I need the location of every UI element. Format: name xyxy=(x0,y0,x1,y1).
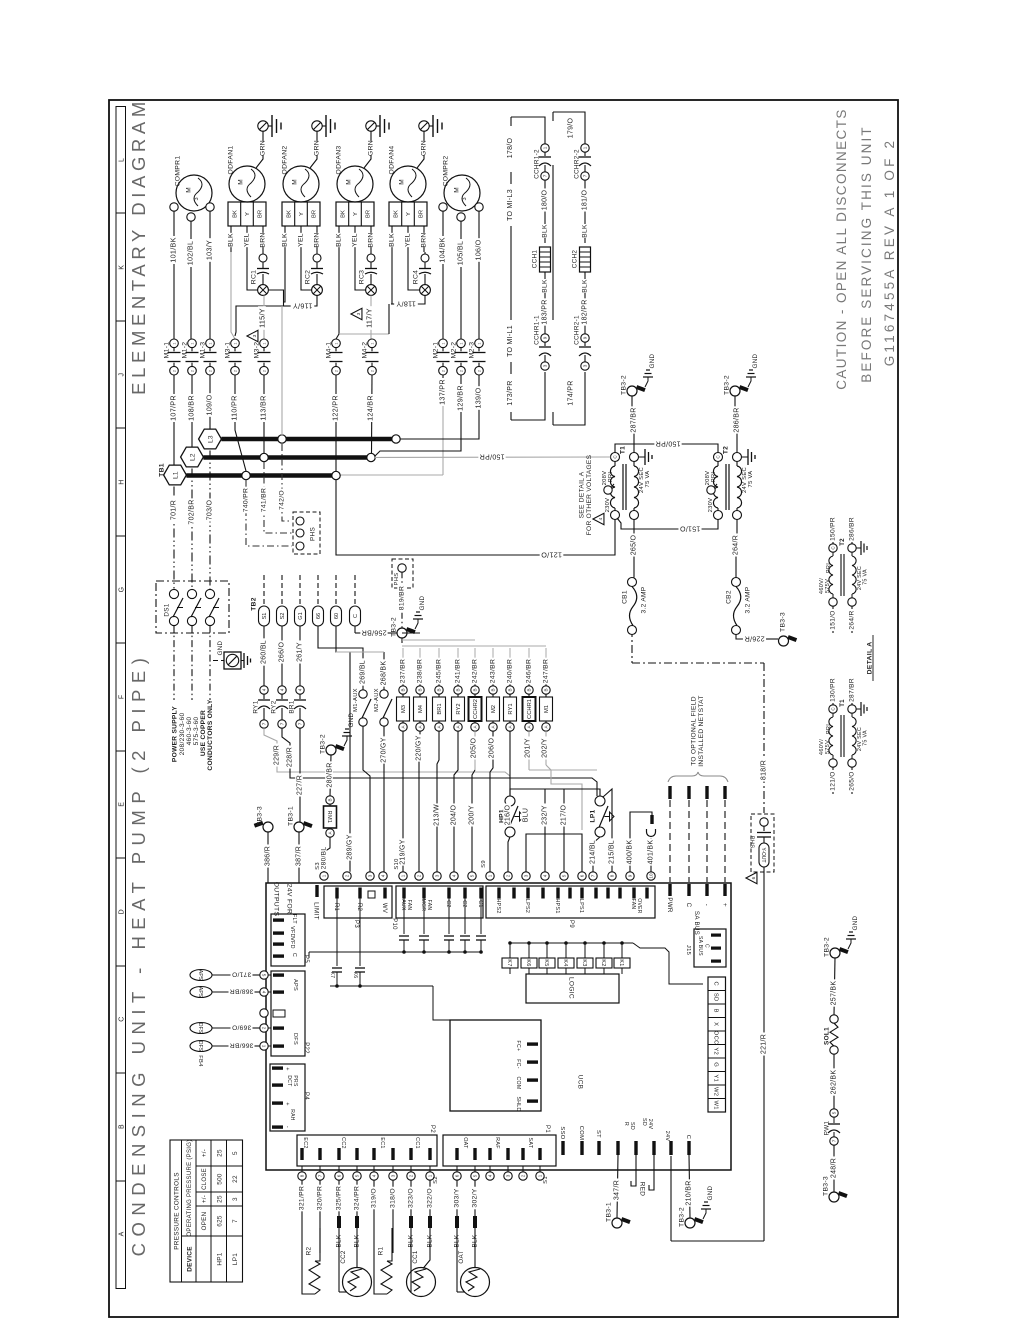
svg-text:256/BR: 256/BR xyxy=(361,628,386,635)
switch PW1 xyxy=(828,1109,840,1145)
wire BRN ODFAN4 xyxy=(423,226,425,252)
svg-text:3.2 AMP: 3.2 AMP xyxy=(744,586,751,613)
svg-text:M1-2: M1-2 xyxy=(181,342,188,359)
svg-text:LOGIC: LOGIC xyxy=(568,977,575,999)
svg-text:C: C xyxy=(685,1135,691,1140)
svg-text:B: B xyxy=(508,688,513,691)
svg-text:ODFAN2: ODFAN2 xyxy=(281,146,288,175)
svg-text:245/BR: 245/BR xyxy=(435,659,442,683)
svg-text:4: 4 xyxy=(598,517,604,520)
svg-text:701/R: 701/R xyxy=(171,500,178,520)
svg-text:261/Y: 261/Y xyxy=(297,642,304,662)
svg-text:M2-AUX: M2-AUX xyxy=(374,688,380,712)
power supply note xyxy=(171,699,214,770)
svg-text:4: 4 xyxy=(298,688,303,691)
svg-text:7: 7 xyxy=(591,874,596,877)
svg-text:RC2: RC2 xyxy=(304,270,311,285)
svg-text:115/Y: 115/Y xyxy=(258,308,267,328)
svg-text:BLK: BLK xyxy=(227,233,234,247)
svg-text:YEL: YEL xyxy=(297,233,304,247)
svg-text:102/BL: 102/BL xyxy=(186,241,195,266)
wire 262/BK xyxy=(833,1054,835,1109)
svg-text:137/PR: 137/PR xyxy=(438,379,447,405)
svg-text:1: 1 xyxy=(262,342,266,344)
capacitor RC2 xyxy=(311,252,323,295)
svg-text:1: 1 xyxy=(538,1174,543,1177)
svg-text:742/O: 742/O xyxy=(278,490,285,510)
motor ODFAN3 xyxy=(337,166,373,202)
svg-text:SHLD: SHLD xyxy=(515,1096,521,1111)
svg-text:BLK: BLK xyxy=(541,224,548,238)
svg-text:3: 3 xyxy=(524,874,529,877)
svg-text:RC3: RC3 xyxy=(358,270,365,285)
svg-text:M: M xyxy=(345,179,352,184)
wire GRN ODFAN4 xyxy=(417,132,424,169)
svg-text:320/PR: 320/PR xyxy=(316,1186,323,1210)
svg-text:PRS: PRS xyxy=(292,1075,298,1087)
wire BLK ODFAN2 to M3-1 xyxy=(235,252,285,336)
wire 400/BK spare xyxy=(630,812,652,872)
contact M2-3 xyxy=(473,339,486,375)
svg-text:DEVICE: DEVICE xyxy=(186,1246,193,1272)
wire 386/R xyxy=(267,832,269,883)
svg-text:121/O: 121/O xyxy=(829,771,836,790)
wire 321/PR xyxy=(301,1180,303,1216)
wire 139/O M2-3 to L3 xyxy=(400,375,479,439)
zone letters xyxy=(118,158,125,1236)
wire 702/BR field xyxy=(191,469,193,590)
wire 325/PR xyxy=(338,1180,340,1216)
svg-text:24V: 24V xyxy=(647,1119,653,1130)
wires T1 detail xyxy=(833,677,852,794)
terminal TB3-2 T1 xyxy=(627,385,646,396)
contact M4-1 xyxy=(330,339,343,375)
TB2 terminal S1 xyxy=(259,606,270,626)
svg-text:FB4: FB4 xyxy=(197,1055,203,1067)
svg-text:L1: L1 xyxy=(172,471,179,479)
svg-text:215/BL: 215/BL xyxy=(609,840,616,864)
svg-text:APS: APS xyxy=(197,987,203,998)
svg-text:75 VA: 75 VA xyxy=(748,471,754,488)
relay K6 xyxy=(521,958,537,968)
svg-text:GND: GND xyxy=(348,712,355,727)
svg-text:RY1: RY1 xyxy=(508,703,514,714)
terminal TB3-2 RM1 feed xyxy=(326,744,345,755)
terminal TB3-2 bottom with ground xyxy=(685,1217,704,1228)
svg-text:RM1: RM1 xyxy=(326,811,332,824)
svg-text:130/PR: 130/PR xyxy=(829,678,836,702)
svg-text:Y-OUT: Y-OUT xyxy=(760,847,766,862)
svg-text:238/BR: 238/BR xyxy=(416,659,423,683)
svg-text:269/BL: 269/BL xyxy=(360,660,367,684)
svg-text:180/O: 180/O xyxy=(542,189,549,210)
svg-text:625: 625 xyxy=(216,1215,223,1227)
switch DFS 366/BR xyxy=(190,1041,212,1052)
svg-text:+: + xyxy=(284,1067,290,1071)
svg-text:200/Y: 200/Y xyxy=(469,805,476,825)
svg-text:CCHR1: CCHR1 xyxy=(527,699,533,719)
svg-text:GRN: GRN xyxy=(420,140,427,156)
contact M1-2 xyxy=(186,339,199,375)
svg-text:Y: Y xyxy=(353,212,359,216)
LOGIC block xyxy=(510,968,622,1003)
wire 206/O M2 to S9-1 xyxy=(490,731,493,872)
svg-text:247/BR: 247/BR xyxy=(542,659,549,683)
label ODFAN3 xyxy=(335,146,342,175)
svg-text:287/BR: 287/BR xyxy=(848,678,855,702)
svg-text:369/O: 369/O xyxy=(232,1024,251,1031)
suppressor bus K7K6 xyxy=(330,986,450,1020)
svg-text:PHS: PHS xyxy=(394,573,400,586)
ground lug GND box xyxy=(224,652,251,669)
svg-text:575-3-60: 575-3-60 xyxy=(193,717,200,746)
svg-text:APS: APS xyxy=(197,970,203,981)
label DS1 xyxy=(163,603,170,616)
svg-text:174/PR: 174/PR xyxy=(568,380,575,405)
svg-text:4: 4 xyxy=(452,874,457,877)
svg-text:1: 1 xyxy=(262,1045,267,1048)
svg-text:DS1: DS1 xyxy=(163,603,170,616)
relay K1 xyxy=(614,958,630,968)
connector S3 pins xyxy=(320,872,387,880)
svg-text:1: 1 xyxy=(190,342,194,344)
svg-text:RC1: RC1 xyxy=(250,270,257,285)
wire 118/Y bridge RC3-RC4 xyxy=(391,295,425,304)
switch DFS 369/O xyxy=(190,1023,212,1034)
svg-text:M1-3: M1-3 xyxy=(199,342,206,359)
svg-text:2: 2 xyxy=(417,874,422,877)
svg-text:SEE DETAIL A: SEE DETAIL A xyxy=(578,471,585,518)
wire RED stub xyxy=(631,1155,636,1186)
relay coil M1 xyxy=(542,686,550,694)
svg-text:FC+: FC+ xyxy=(515,1041,521,1052)
svg-text:B: B xyxy=(473,688,478,691)
sensor CC2 xyxy=(343,1268,372,1297)
svg-text:CCHR2-1: CCHR2-1 xyxy=(573,315,580,345)
wire 216/O HP1 to S9-2 xyxy=(508,837,510,872)
svg-text:SSO: SSO xyxy=(559,1126,565,1139)
relay coil M4 xyxy=(416,686,424,694)
svg-text:117/Y: 117/Y xyxy=(365,308,374,328)
wire YEL ODFAN3 xyxy=(354,226,356,252)
svg-text:S2: S2 xyxy=(280,613,286,620)
svg-text:287/BR: 287/BR xyxy=(631,407,638,432)
wire GRN ODFAN2 xyxy=(310,132,317,169)
svg-text:216/O: 216/O xyxy=(505,804,512,825)
svg-text:FC-: FC- xyxy=(515,1059,521,1069)
svg-text:371/O: 371/O xyxy=(232,971,251,978)
connector S9 pins xyxy=(486,872,655,880)
wire 256/BR TB2-C to TB3-2 xyxy=(355,626,397,633)
circuit breaker CB1 xyxy=(628,578,637,635)
warning triangle 6 xyxy=(746,872,757,883)
svg-text:1: 1 xyxy=(322,874,327,877)
svg-text:3: 3 xyxy=(232,1197,239,1201)
svg-text:109/O: 109/O xyxy=(205,394,214,415)
svg-text:ST: ST xyxy=(595,1130,601,1138)
wire BRN ODFAN2 xyxy=(316,226,318,252)
svg-text:8: 8 xyxy=(610,874,615,877)
svg-text:COMPR1: COMPR1 xyxy=(174,156,181,187)
sensor CC1 wires xyxy=(411,1228,430,1292)
svg-text:USE COPPER: USE COPPER xyxy=(200,710,207,756)
svg-text:178/O: 178/O xyxy=(507,137,514,158)
svg-text:RAF: RAF xyxy=(494,1137,500,1149)
svg-text:5: 5 xyxy=(832,1111,837,1114)
svg-text:PRI: PRI xyxy=(826,563,832,573)
wire 246/BR xyxy=(528,648,530,686)
wire 323/O xyxy=(410,1180,412,1216)
netstat wire C xyxy=(687,786,690,882)
svg-text:2: 2 xyxy=(345,874,350,877)
svg-text:BEFORE SERVICING THIS UNIT: BEFORE SERVICING THIS UNIT xyxy=(859,125,874,382)
svg-text:4: 4 xyxy=(262,688,267,691)
svg-text:+: + xyxy=(284,1102,290,1106)
svg-text:220/GY: 220/GY xyxy=(416,735,423,761)
svg-text:-: - xyxy=(703,904,710,906)
wire 240/BR xyxy=(509,648,511,686)
svg-text:PRI: PRI xyxy=(826,724,832,734)
note SEE DETAIL A FOR OTHER VOLTAGES xyxy=(578,454,593,535)
COMPR2 terminals xyxy=(439,203,483,221)
wire BLK ODFAN3 xyxy=(338,226,340,252)
svg-text:1: 1 xyxy=(401,874,406,877)
svg-text:PW1: PW1 xyxy=(823,1120,830,1135)
svg-text:3: 3 xyxy=(435,874,440,877)
svg-text:M2-2: M2-2 xyxy=(450,342,457,359)
svg-text:S2: S2 xyxy=(433,1176,439,1184)
svg-text:X: X xyxy=(713,1022,719,1026)
svg-text:J: J xyxy=(118,373,125,377)
svg-text:CB2: CB2 xyxy=(725,590,732,604)
svg-text:264/R: 264/R xyxy=(848,610,855,629)
svg-text:122/PR: 122/PR xyxy=(331,395,340,421)
svg-text:6: 6 xyxy=(337,1174,342,1177)
svg-text:DETAIL A: DETAIL A xyxy=(866,642,873,675)
svg-text:TO MI-L3: TO MI-L3 xyxy=(507,189,514,221)
motor ODFAN4 xyxy=(390,166,426,202)
svg-text:K4: K4 xyxy=(562,959,568,966)
wire 320/PR xyxy=(319,1180,321,1216)
svg-text:75 VA: 75 VA xyxy=(862,730,868,746)
svg-text:LPS2: LPS2 xyxy=(524,899,530,913)
svg-text:2: 2 xyxy=(477,370,481,372)
svg-text:TB3-3: TB3-3 xyxy=(256,806,263,826)
svg-text:Y: Y xyxy=(245,212,251,216)
svg-text:237/BR: 237/BR xyxy=(399,659,406,683)
svg-text:3: 3 xyxy=(543,364,548,367)
wire 740/PR to PHS xyxy=(246,480,292,546)
wire 318/O xyxy=(392,1180,394,1216)
ODFAN4 terminal box BK Y BR xyxy=(389,202,427,226)
warning triangle at M4-2 xyxy=(351,308,362,319)
junction on L2 xyxy=(260,453,268,461)
wire 387/R xyxy=(298,832,300,883)
svg-text:A: A xyxy=(118,1231,125,1236)
svg-text:202/Y: 202/Y xyxy=(542,738,549,758)
svg-text:4: 4 xyxy=(280,688,285,691)
svg-text:T1: T1 xyxy=(619,446,626,454)
svg-text:575V: 575V xyxy=(825,740,831,754)
wire 115/Y RC1 to M3-2 (gray) xyxy=(263,295,265,339)
svg-text:280/BR: 280/BR xyxy=(327,762,334,787)
svg-text:319/O: 319/O xyxy=(370,1188,377,1208)
svg-text:GND: GND xyxy=(217,640,224,655)
svg-text:210/BR: 210/BR xyxy=(686,1180,693,1205)
svg-text:S10: S10 xyxy=(394,858,400,869)
svg-text:818/R: 818/R xyxy=(761,760,768,780)
svg-text:TB3-1: TB3-1 xyxy=(605,1202,612,1222)
ground ODFAN3 xyxy=(366,115,389,137)
relay bus on board xyxy=(508,941,703,984)
wire 280/BL RM1 to S3-1 xyxy=(324,837,330,872)
svg-text:460-3-60: 460-3-60 xyxy=(186,717,193,746)
wire 204/O RY2 to S10-4 xyxy=(454,731,458,872)
contact M2-1 xyxy=(437,339,450,375)
svg-text:R1: R1 xyxy=(377,1246,384,1255)
wire 214/BL LP1 to S9-7 xyxy=(593,837,600,872)
motor ODFAN2 xyxy=(283,166,319,202)
junction L2 end xyxy=(367,453,375,461)
contact M2-AUX xyxy=(380,690,392,726)
svg-text:COM: COM xyxy=(515,1076,521,1089)
svg-text:B: B xyxy=(527,688,532,691)
svg-text:741/BR: 741/BR xyxy=(260,488,267,512)
svg-text:UCB: UCB xyxy=(577,1075,584,1089)
svg-text:107/PR: 107/PR xyxy=(169,395,178,421)
svg-text:BR: BR xyxy=(258,210,264,218)
wire 226/R CB2 to TB3-3 xyxy=(736,635,778,640)
connector P2 xyxy=(297,1135,437,1166)
svg-text:280/BL: 280/BL xyxy=(320,847,327,870)
svg-text:264/R: 264/R xyxy=(733,535,740,555)
transformer T2 xyxy=(707,453,742,520)
svg-text:268/BK: 268/BK xyxy=(381,661,388,686)
wire 257/BK xyxy=(834,958,835,1015)
svg-text:B: B xyxy=(437,688,442,691)
svg-text:289/GY: 289/GY xyxy=(347,834,354,860)
svg-text:B: B xyxy=(544,688,549,691)
svg-text:302/Y: 302/Y xyxy=(471,1188,478,1207)
svg-text:3: 3 xyxy=(356,312,362,315)
transformer T1 detail A xyxy=(829,705,856,767)
svg-text:9: 9 xyxy=(543,336,548,339)
connector S1 pins xyxy=(453,1166,544,1180)
wire 60 to S3-2 289/GY xyxy=(336,626,350,872)
wire 201/Y CCHR1 to LP1 xyxy=(529,731,597,770)
DS1 pole at 210 xyxy=(205,589,219,625)
svg-text:TB3-2: TB3-2 xyxy=(319,734,326,754)
svg-text:EC1: EC1 xyxy=(379,1137,385,1148)
wire 106/O xyxy=(478,211,480,339)
wire GRN ODFAN1 xyxy=(256,132,263,169)
svg-text:575V: 575V xyxy=(825,579,831,593)
relay K5 xyxy=(539,958,555,968)
wire 124/BR M4-2 to L2 junction xyxy=(371,375,374,453)
svg-text:PWR: PWR xyxy=(666,897,673,913)
wire 105/BL xyxy=(460,221,462,339)
wire 264/R T2 to CB2 xyxy=(736,520,737,578)
ground ODFAN1 xyxy=(258,115,281,137)
svg-text:B: B xyxy=(328,798,333,801)
terminal block TB1 hex L1 xyxy=(164,465,187,485)
wire BRN ODFAN1 xyxy=(262,226,264,252)
svg-text:C: C xyxy=(118,1017,125,1022)
svg-text:COMPR2: COMPR2 xyxy=(442,156,449,187)
svg-text:LP1: LP1 xyxy=(232,1253,239,1265)
wire 213/W BR1 to S10-3 xyxy=(437,731,439,872)
wires T2 detail xyxy=(833,516,852,633)
svg-text:213/W: 213/W xyxy=(434,804,441,826)
relay K3 xyxy=(577,958,593,968)
wire 322/O xyxy=(429,1180,431,1216)
svg-text:1: 1 xyxy=(370,342,374,344)
svg-text:Y: Y xyxy=(406,212,412,216)
wire to ground lug xyxy=(213,660,224,662)
splices BLK xyxy=(302,1216,478,1253)
svg-text:ELEMENTARY DIAGRAM: ELEMENTARY DIAGRAM xyxy=(128,97,149,395)
wire 319/O xyxy=(373,1180,375,1216)
svg-text:151/O: 151/O xyxy=(829,610,836,629)
svg-text:BLK: BLK xyxy=(281,233,288,247)
svg-text:GND: GND xyxy=(649,353,656,368)
wire ODFAN2 BLK drop to L3 xyxy=(281,306,283,435)
svg-text:248/R: 248/R xyxy=(831,1158,838,1178)
svg-text:M1-1: M1-1 xyxy=(163,342,170,359)
svg-text:150/PR: 150/PR xyxy=(479,452,504,459)
wire BLK ODFAN3 to M4-1 (gray) xyxy=(336,252,389,339)
svg-text:YEL: YEL xyxy=(404,233,411,247)
wire SD 24V stub xyxy=(649,1155,654,1190)
svg-text:113/BR: 113/BR xyxy=(259,395,268,420)
wire 103/Y xyxy=(209,211,211,339)
svg-text:CCH1: CCH1 xyxy=(531,250,538,269)
svg-text:740/PR: 740/PR xyxy=(242,488,249,512)
svg-text:GND: GND xyxy=(852,915,859,930)
wire 210/BR to TB3-2 xyxy=(689,1155,690,1218)
svg-text:201/Y: 201/Y xyxy=(525,738,532,758)
svg-text:J15: J15 xyxy=(685,945,691,955)
svg-text:75 VA: 75 VA xyxy=(862,569,868,585)
svg-text:3: 3 xyxy=(391,1174,396,1177)
wire 150/PR T1 to T2 xyxy=(615,444,718,453)
wire 122/PR M4-1 to L1 junction xyxy=(335,375,337,471)
svg-text:M4-1: M4-1 xyxy=(325,342,332,359)
svg-text:C: C xyxy=(713,981,719,986)
svg-text:APS: APS xyxy=(292,979,298,991)
wire BLK ODFAN4 xyxy=(391,226,393,252)
svg-text:2: 2 xyxy=(334,370,338,372)
svg-text:C2: C2 xyxy=(445,900,451,908)
wire 113/BR M3-2 to L2 bus xyxy=(263,375,265,454)
TB2 terminal 66 xyxy=(313,606,324,626)
netstat brace xyxy=(668,772,728,782)
svg-text:BRN: BRN xyxy=(259,232,266,247)
svg-text:R2: R2 xyxy=(305,1246,312,1255)
wire BRN ODFAN3 xyxy=(370,226,372,252)
TB2 terminal G1 xyxy=(295,606,306,626)
svg-text:4: 4 xyxy=(543,874,548,877)
wire 819/BR xyxy=(401,572,403,627)
svg-text:8: 8 xyxy=(300,1174,305,1177)
wire YEL ODFAN2 xyxy=(300,226,302,252)
pressure switch HP1 xyxy=(505,796,524,837)
svg-text:BLK: BLK xyxy=(335,233,342,247)
svg-text:265/O: 265/O xyxy=(848,771,855,790)
suppressor bus P10 xyxy=(309,952,481,958)
svg-text:5: 5 xyxy=(232,1151,239,1155)
wire YEL to RC2 xyxy=(301,252,312,290)
